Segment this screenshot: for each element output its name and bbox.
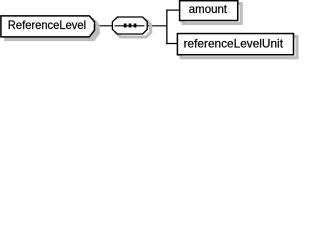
element referenceLevelUnit shadow: [181, 37, 297, 58]
wire: sequence compositor to branch junction: [147, 25, 167, 27]
sequence dot 1: [124, 24, 127, 28]
sequence line through octagon: [115, 25, 145, 27]
sequence dot 2: [129, 24, 132, 28]
sequence compositor shadow: [116, 20, 151, 37]
background: [0, 0, 303, 61]
element amount box: [180, 1, 238, 21]
wire: branch to referenceLevelUnit: [166, 43, 178, 45]
element ReferenceLevel pennant box: [1, 16, 95, 37]
element amount shadow: [183, 4, 241, 24]
sequence dot 3: [134, 24, 137, 28]
wire: pennant tip to sequence compositor: [95, 25, 113, 27]
wire: branch to amount: [166, 9, 180, 11]
element referenceLevelUnit box: [177, 34, 293, 55]
svg-text:ReferenceLevel: ReferenceLevel: [8, 18, 86, 32]
svg-text:referenceLevelUnit: referenceLevelUnit: [184, 37, 284, 51]
svg-text:amount: amount: [189, 2, 228, 16]
wire: vertical branch: [166, 10, 168, 45]
sequence compositor octagon: [112, 17, 147, 34]
element ReferenceLevel shadow: [5, 19, 99, 40]
